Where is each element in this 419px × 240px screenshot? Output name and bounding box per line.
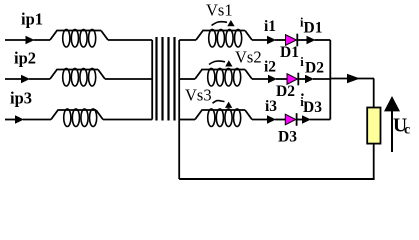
svg-text:D2: D2 [276, 83, 295, 100]
svg-text:ip2: ip2 [14, 49, 36, 68]
current arrow i2 [268, 75, 277, 83]
wire to primary coil L3 [23, 119, 51, 121]
svg-text:D1: D1 [280, 44, 299, 61]
diode D3 anode triangle [285, 114, 296, 125]
secondary winding Vs1 [196, 31, 252, 41]
current arrow ip1 [26, 36, 35, 44]
bottom return wire [179, 178, 374, 180]
wire input line 1 [5, 39, 28, 41]
primary winding L3 [51, 110, 103, 120]
svg-text:ip1: ip1 [21, 10, 43, 29]
wire diode D1 to cathode bus [315, 39, 331, 41]
wire coil Vs1 to diode branch [252, 39, 269, 41]
primary winding L2 [50, 70, 105, 80]
current arrow iD1 [307, 36, 316, 44]
wire iD3 stretch [297, 119, 302, 121]
svg-text:c: c [404, 123, 410, 138]
Uc arrowhead [384, 96, 400, 111]
wire secondary bus to coil Vs1 [179, 39, 196, 41]
svg-text:i3: i3 [265, 98, 277, 115]
current arrow i1 [267, 36, 276, 44]
current arrow i3 [267, 115, 276, 123]
wire coil L3 to star bus [103, 119, 152, 121]
svg-text:D3: D3 [278, 129, 297, 146]
cathode bus [329, 40, 331, 120]
svg-text:D3: D3 [303, 99, 322, 116]
diode D2 cathode bar [297, 73, 299, 86]
wire down to load [373, 79, 375, 108]
Uc arrow stem [391, 111, 393, 152]
wire iD2 stretch [299, 78, 305, 80]
voltage arrow curve Vs3 [213, 100, 225, 103]
diode D1 cathode bar [296, 34, 298, 47]
transformer core bar 3 [167, 37, 169, 121]
wire coil L2 to star bus [105, 78, 152, 80]
secondary star-point bus [178, 40, 180, 179]
transformer core bar 1 [155, 37, 157, 121]
svg-text:Vs1: Vs1 [206, 1, 233, 20]
current arrow ip3 [15, 115, 24, 123]
current arrow iD2 [305, 75, 314, 83]
svg-text:D1: D1 [304, 20, 323, 37]
wire to primary coil L2 [29, 78, 50, 80]
transformer core bar 2 [161, 37, 163, 121]
wire to primary coil L1 [34, 39, 51, 41]
current arrow ip2 [21, 75, 30, 83]
load resistor [367, 108, 380, 144]
svg-text:i: i [300, 55, 304, 69]
voltage arrow curve Vs2 [209, 61, 225, 64]
wire load to bottom [373, 144, 375, 179]
wire input line 2 [5, 78, 23, 80]
wire input line 3 [5, 119, 17, 121]
diode D3 cathode bar [296, 113, 298, 126]
secondary winding Vs3 [195, 110, 252, 120]
wire coil Vs2 to diode branch [252, 78, 270, 80]
transformer core bar 4 [173, 37, 175, 121]
svg-text:ip3: ip3 [10, 89, 32, 108]
wire diode D3 to cathode bus [310, 119, 330, 121]
svg-text:Vs2: Vs2 [235, 48, 262, 67]
diode D2 anode triangle [287, 74, 298, 85]
svg-text:i2: i2 [264, 58, 276, 75]
wire secondary bus to coil Vs2 [179, 78, 195, 80]
svg-text:D2: D2 [305, 60, 324, 77]
wire coil L1 to star bus [108, 39, 152, 41]
diode D1 anode triangle [286, 35, 297, 46]
wire to diode D1 [275, 39, 287, 41]
wire coil Vs3 to diode branch [252, 119, 269, 121]
voltage arrow curve Vs1 [212, 22, 228, 26]
secondary winding Vs2 [195, 70, 252, 80]
wire secondary bus to coil Vs3 [179, 119, 195, 121]
wire diode D2 to cathode bus [313, 78, 330, 80]
voltage arrowhead Vs1 [227, 20, 234, 26]
svg-text:Vs3: Vs3 [185, 86, 212, 105]
load current arrow [347, 74, 360, 84]
voltage arrowhead Vs2 [225, 60, 232, 66]
current arrow iD3 [302, 115, 311, 123]
wire to diode D2 [276, 78, 288, 80]
primary winding L1 [50, 31, 108, 41]
voltage arrowhead Vs3 [225, 102, 232, 108]
primary star-point bus [151, 40, 153, 120]
output wire to load [330, 78, 374, 80]
wire iD1 stretch [298, 39, 307, 41]
svg-text:i1: i1 [264, 18, 276, 35]
wire to diode D3 [275, 119, 286, 121]
